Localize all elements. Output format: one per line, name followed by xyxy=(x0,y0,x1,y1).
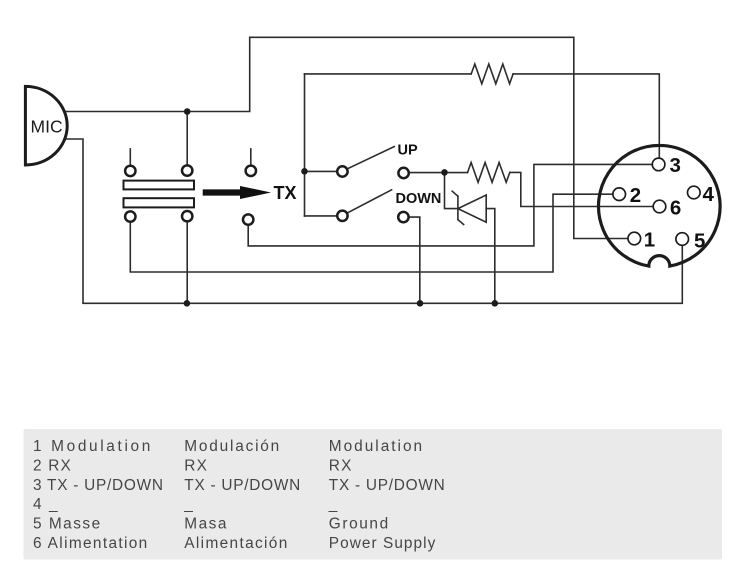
zener hook top xyxy=(452,191,458,196)
junction dot UP/zener xyxy=(441,169,448,176)
wire: switch common vertical with UP and DOWN branches xyxy=(304,74,306,216)
svg-text:4: 4 xyxy=(703,183,715,206)
switch DOWN lever xyxy=(348,190,392,213)
svg-text:TX - UP/DOWN: TX - UP/DOWN xyxy=(329,477,446,494)
contact circle UP left xyxy=(337,166,347,176)
svg-text:Power Supply: Power Supply xyxy=(329,535,437,552)
pin 4 xyxy=(688,186,701,199)
zener diode D1 cathode bar xyxy=(457,196,459,219)
wire: R1 to pin 3 drop xyxy=(513,74,659,158)
wire: MIC bottom to ground bus, bus to pin 5 xyxy=(61,139,682,303)
svg-text:3: 3 xyxy=(670,154,681,177)
svg-text:6: 6 xyxy=(670,196,681,219)
pin 3 xyxy=(652,158,665,171)
wire: TX upper contact open stub xyxy=(250,149,252,165)
contact circle DOWN right xyxy=(398,212,408,222)
svg-text:6 Alimentation: 6 Alimentation xyxy=(33,535,149,552)
pin 5 xyxy=(676,233,689,246)
switch UP lever xyxy=(348,147,395,169)
contact circle UP right xyxy=(398,168,408,178)
wire: transformer bottom-left to pin 2 (RX) xyxy=(130,194,612,272)
wire: transformer top-left open stub xyxy=(129,149,131,165)
junction dot bus/transformer xyxy=(184,300,191,307)
DIN connector shell with keyway notch xyxy=(599,145,721,266)
wire: TX lower contact loop to pin 3 xyxy=(248,164,652,246)
wire: transformer bottom-right to ground bus xyxy=(186,223,188,304)
zener diode D1 triangle xyxy=(458,195,486,222)
wire: R2 to pin 6 xyxy=(510,172,653,206)
contact circle transformer top-left xyxy=(125,166,135,176)
wire: UP right to R2 xyxy=(410,172,468,174)
junction dot bus/DOWN xyxy=(417,300,424,307)
svg-text:TX - UP/DOWN: TX - UP/DOWN xyxy=(184,477,301,494)
legend panel xyxy=(24,429,723,560)
wire: MIC top to outer loop, top bus, down to pin 1 xyxy=(62,37,628,238)
contact circle transformer bottom-left xyxy=(125,211,135,221)
contact circle TX upper xyxy=(246,166,256,176)
svg-text:1 Modulation: 1 Modulation xyxy=(33,438,153,455)
svg-text:Ground: Ground xyxy=(329,516,390,533)
svg-text:5: 5 xyxy=(694,230,705,253)
junction dot bus/zener xyxy=(492,300,499,307)
svg-text:Modulation: Modulation xyxy=(329,438,424,455)
svg-text:UP: UP xyxy=(398,142,418,158)
junction dot MIC/transformer xyxy=(184,108,191,115)
svg-text:_: _ xyxy=(48,496,58,513)
contact circle DOWN left xyxy=(337,211,347,221)
svg-text:TX: TX xyxy=(274,183,297,203)
svg-text:RX: RX xyxy=(329,457,353,474)
svg-text:RX: RX xyxy=(184,457,208,474)
microphone MIC xyxy=(25,86,67,165)
TX arrow xyxy=(203,186,271,199)
wire: branch to DOWN switch xyxy=(305,215,337,217)
resistor R2 xyxy=(468,163,510,183)
svg-text:4: 4 xyxy=(33,496,42,513)
svg-text:2: 2 xyxy=(630,184,641,207)
pin 2 xyxy=(613,188,626,201)
svg-text:MIC: MIC xyxy=(31,116,63,136)
contact circle transformer bottom-right xyxy=(182,211,192,221)
pin 6 xyxy=(653,200,666,213)
wire: transformer top-right terminal up to MIC wire junction xyxy=(186,112,188,165)
wire: zener branch from UP line xyxy=(445,172,458,208)
junction dot switch common xyxy=(301,168,308,175)
wire: zener to ground bus xyxy=(486,209,495,304)
contact circle TX lower xyxy=(243,214,253,224)
svg-text:Masa: Masa xyxy=(184,516,228,533)
svg-text:5 Masse: 5 Masse xyxy=(33,516,102,533)
svg-text:Alimentación: Alimentación xyxy=(184,535,288,552)
svg-text:Modulación: Modulación xyxy=(184,438,281,455)
svg-text:_: _ xyxy=(183,496,193,513)
svg-text:3 TX - UP/DOWN: 3 TX - UP/DOWN xyxy=(33,477,164,494)
wire: R1 row from switch common to pin 3 xyxy=(305,73,472,75)
wire: DOWN right to ground bus xyxy=(409,217,419,303)
contact circle transformer top-right xyxy=(182,165,192,175)
svg-text:_: _ xyxy=(328,496,338,513)
svg-text:2 RX: 2 RX xyxy=(33,457,72,474)
svg-text:1: 1 xyxy=(644,229,655,252)
svg-text:DOWN: DOWN xyxy=(396,191,442,207)
transformer bar lower xyxy=(124,198,195,207)
transformer bar upper xyxy=(124,181,195,190)
wire: branch to UP switch xyxy=(305,170,337,172)
pin 1 xyxy=(628,232,641,245)
resistor R1 xyxy=(471,64,513,84)
zener hook bottom xyxy=(458,220,464,225)
